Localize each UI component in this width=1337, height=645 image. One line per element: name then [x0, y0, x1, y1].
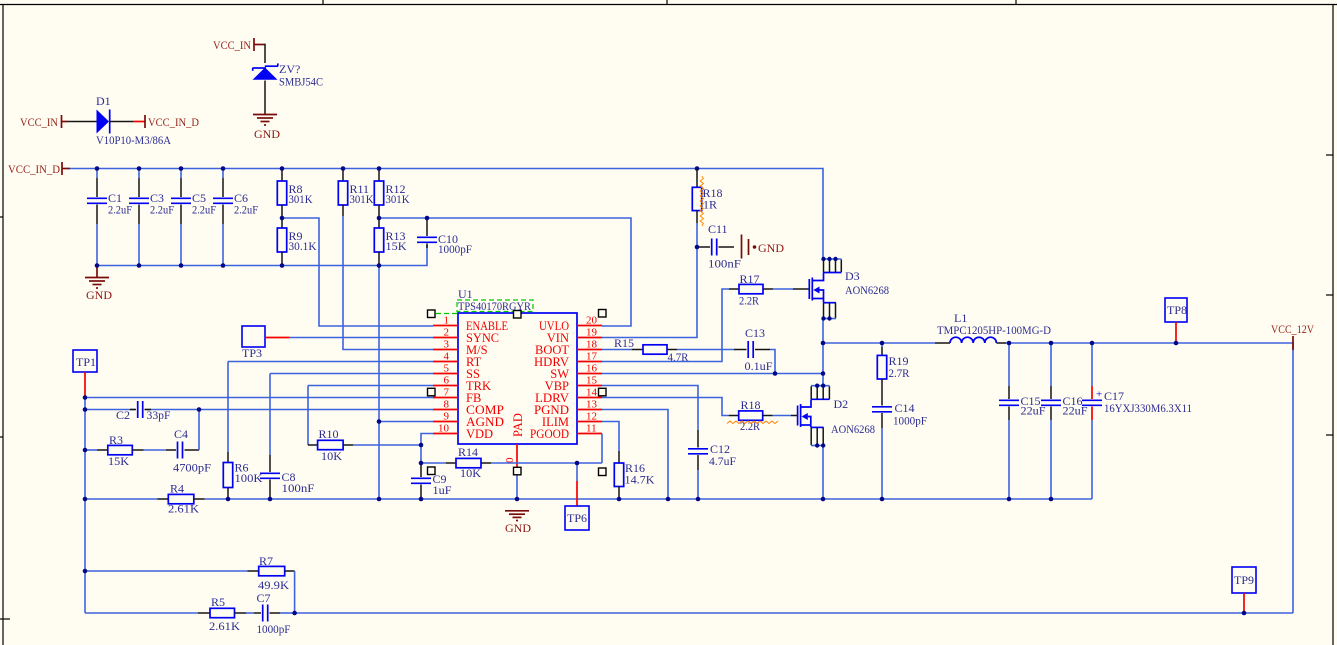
capacitor C1	[87, 169, 132, 266]
wire	[264, 81, 266, 114]
svg-text:D3: D3	[845, 269, 860, 283]
svg-text:D2: D2	[834, 397, 849, 411]
svg-text:49.9K: 49.9K	[258, 578, 289, 592]
svg-text:2: 2	[444, 327, 450, 339]
svg-text:4: 4	[444, 351, 450, 363]
junction dots right/bottom	[83, 245, 1247, 616]
testpoint TP8	[1165, 298, 1187, 343]
svg-text:TP3: TP3	[242, 346, 262, 360]
junction dots top area	[95, 166, 700, 268]
svg-text:2.2uF: 2.2uF	[108, 203, 132, 217]
pin 8 COMP	[433, 399, 504, 418]
wire AGND vertical	[378, 266, 380, 500]
svg-text:TP1: TP1	[76, 355, 96, 369]
wire	[110, 121, 133, 123]
svg-text:20: 20	[586, 315, 598, 327]
svg-text:+: +	[1096, 389, 1102, 401]
wire GND rail left	[85, 498, 158, 500]
svg-text:C11: C11	[708, 222, 728, 236]
pin 17 HDRV	[534, 351, 602, 370]
wire R7 right down	[294, 571, 296, 613]
wire D2 source to gnd rail	[822, 446, 824, 500]
svg-text:14: 14	[586, 387, 598, 399]
ERC squiggle R18 (1R)	[700, 176, 703, 226]
selection dashes U1	[436, 300, 533, 314]
pin 7 FB	[433, 387, 481, 406]
pin 11 PGOOD	[530, 423, 602, 442]
svg-text:GND: GND	[254, 127, 280, 141]
capacitor C14	[872, 399, 927, 499]
capacitor C17 (polarized)	[1082, 343, 1192, 499]
wire GND rail	[205, 498, 1092, 500]
wire TP3 to SYNC	[290, 337, 434, 339]
capacitor C3	[129, 169, 174, 266]
svg-text:2.7R: 2.7R	[889, 366, 910, 380]
wire R3-C4	[144, 449, 167, 451]
svg-text:4.7uF: 4.7uF	[709, 454, 736, 468]
capacitor C4	[166, 427, 211, 475]
svg-text:TP6: TP6	[567, 511, 587, 525]
svg-text:301K: 301K	[386, 192, 410, 206]
svg-text:PGOOD: PGOOD	[530, 427, 569, 441]
pin 20 UVLO	[539, 315, 602, 334]
svg-text:0.1uF: 0.1uF	[745, 359, 773, 373]
svg-text:2.2R: 2.2R	[739, 294, 759, 308]
svg-text:10K: 10K	[321, 449, 342, 463]
svg-text:12: 12	[586, 411, 597, 423]
pin 2 SYNC	[433, 327, 499, 346]
inductor L1	[935, 311, 1051, 343]
wire R8/R9 tap to ENABLE	[282, 218, 433, 326]
ERC squiggle R18 (2.2R)	[727, 421, 778, 424]
wire FB to pin7	[85, 397, 433, 399]
svg-text:1000pF: 1000pF	[438, 242, 472, 256]
resistor R19	[877, 343, 909, 399]
svg-text:2.2uF: 2.2uF	[192, 203, 216, 217]
svg-text:1R: 1R	[703, 198, 717, 212]
pin 13 PGND	[534, 399, 602, 418]
wire output rail	[1006, 343, 1293, 613]
resistor R7	[85, 554, 295, 592]
svg-text:100nF: 100nF	[708, 257, 741, 271]
ground (below C1)	[85, 266, 112, 303]
resistor R12	[374, 169, 409, 219]
resistor R3	[97, 433, 144, 468]
pin 3 M/S	[433, 339, 488, 358]
capacitor C12	[688, 430, 736, 499]
pin 4 RT	[433, 351, 482, 370]
wire	[264, 44, 266, 63]
resistor R10	[308, 386, 433, 464]
resistor R17	[729, 272, 793, 308]
svg-text:14.7K: 14.7K	[625, 473, 655, 487]
svg-text:0: 0	[504, 457, 516, 463]
transistor D3 AON6268	[793, 259, 889, 319]
pin 14 LDRV	[535, 387, 602, 406]
svg-text:2.61K: 2.61K	[209, 619, 240, 633]
wire SW row	[602, 373, 823, 375]
svg-text:15K: 15K	[108, 454, 129, 468]
svg-text:VDD: VDD	[466, 427, 493, 441]
wire VIN vertical	[602, 247, 697, 338]
testpoint TP1	[73, 350, 97, 398]
wire	[68, 121, 97, 123]
wire FB net vertical	[84, 398, 86, 614]
svg-text:15: 15	[586, 375, 598, 387]
port VCC_IN_D (right of D1)	[145, 115, 199, 129]
svg-text:1000pF: 1000pF	[257, 622, 291, 636]
resistor R18 (2.2R)	[729, 398, 791, 433]
resistor R13	[374, 218, 407, 266]
svg-text:R3: R3	[109, 433, 123, 447]
resistor R5	[198, 595, 246, 633]
svg-text:PAD: PAD	[511, 413, 525, 437]
pin 10 VDD	[433, 423, 493, 442]
svg-text:2.2uF: 2.2uF	[234, 203, 258, 217]
pin 19 VIN	[547, 327, 602, 346]
wire C4 up to COMP row	[198, 410, 200, 451]
svg-text:1uF: 1uF	[433, 483, 452, 497]
svg-text:19: 19	[586, 327, 598, 339]
wire top rail	[70, 169, 823, 260]
capacitor C13	[734, 326, 773, 373]
svg-text:2.61K: 2.61K	[168, 502, 199, 516]
testpoint TP9	[1232, 567, 1256, 613]
resistor R15	[602, 336, 734, 364]
svg-text:SMBJ54C: SMBJ54C	[279, 75, 323, 89]
pin 12 ILIM	[542, 411, 602, 430]
svg-text:2.2R: 2.2R	[740, 419, 760, 433]
svg-text:R7: R7	[259, 554, 273, 568]
wire VDD drop	[421, 434, 433, 464]
pin 16 SW	[550, 363, 602, 382]
svg-text:C2: C2	[116, 408, 130, 422]
wire cap gnd rail	[97, 245, 427, 266]
port VCC_IN (top)	[213, 38, 265, 52]
svg-text:301K: 301K	[289, 192, 313, 206]
svg-text:R17: R17	[740, 272, 760, 286]
resistor R14	[421, 445, 602, 480]
pin 0 PAD	[504, 413, 525, 499]
svg-text:VCC_IN_D: VCC_IN_D	[148, 115, 199, 129]
capacitor C7	[246, 591, 295, 636]
capacitor C8	[260, 374, 433, 500]
svg-text:VCC_IN: VCC_IN	[213, 38, 251, 52]
svg-text:C13: C13	[745, 326, 765, 340]
svg-text:TP9: TP9	[1234, 573, 1254, 587]
testpoint TP6	[565, 463, 589, 530]
capacitor C15	[999, 343, 1046, 499]
svg-text:10K: 10K	[460, 466, 481, 480]
wire R11 to M/S	[343, 216, 433, 350]
svg-text:301K: 301K	[350, 192, 374, 206]
resistor R4	[158, 482, 205, 516]
svg-text:3: 3	[444, 339, 450, 351]
wire COMP row	[85, 409, 135, 411]
wire PGOOD drop	[601, 434, 603, 464]
svg-text:GND: GND	[505, 521, 531, 535]
resistor R6	[223, 362, 433, 500]
resistor R9	[277, 218, 317, 266]
svg-text:8: 8	[444, 399, 450, 411]
capacitor C10	[417, 218, 472, 256]
ground (below PAD)	[505, 511, 531, 535]
TVS diode ZV? SMBJ54C	[253, 62, 324, 89]
wire FB tap to R3	[85, 449, 97, 451]
svg-text:6: 6	[444, 375, 450, 387]
svg-text:VCC_12V: VCC_12V	[1271, 322, 1314, 336]
svg-text:R4: R4	[170, 482, 184, 496]
svg-text:C7: C7	[257, 591, 271, 605]
junction dots mid area	[83, 395, 622, 501]
capacitor C9	[411, 463, 452, 499]
pin 5 SS	[433, 363, 480, 382]
ground (below ZV?)	[253, 113, 280, 141]
svg-text:V10P10-M3/86A: V10P10-M3/86A	[96, 133, 171, 147]
pin 18 BOOT	[535, 339, 602, 358]
svg-text:TP8: TP8	[1167, 303, 1187, 317]
wire PGND down	[602, 410, 668, 500]
svg-text:9: 9	[444, 411, 450, 423]
wire SW node vertical	[822, 319, 824, 386]
resistor R8	[277, 169, 312, 219]
pin 1 ENABLE	[433, 315, 508, 334]
capacitor C2	[116, 401, 171, 422]
testpoint TP3	[242, 326, 290, 360]
pin 15 VBP	[545, 375, 602, 394]
port VCC_IN_D	[8, 162, 70, 176]
transistor D2 AON6268	[791, 386, 875, 446]
svg-text:30.1K: 30.1K	[289, 239, 317, 253]
svg-text:AON6268: AON6268	[845, 283, 889, 297]
svg-text:100K: 100K	[235, 471, 263, 485]
resistor R11	[338, 169, 373, 217]
wire LDRV down to R18	[602, 398, 729, 416]
svg-text:TMPC1205HP-100MG-D: TMPC1205HP-100MG-D	[937, 323, 1051, 337]
svg-text:17: 17	[586, 351, 598, 363]
svg-text:GND: GND	[86, 288, 112, 302]
wire SW to L1	[823, 342, 935, 344]
ground (bar style at C11)	[742, 235, 785, 259]
resistor R16	[602, 422, 655, 500]
pin 9 AGND	[433, 411, 504, 430]
svg-text:16: 16	[586, 363, 598, 375]
svg-text:100nF: 100nF	[282, 481, 315, 495]
svg-text:10: 10	[438, 423, 450, 435]
capacitor C5	[171, 169, 216, 266]
svg-text:VCC_IN: VCC_IN	[20, 115, 58, 129]
svg-text:GND: GND	[758, 241, 784, 255]
svg-text:1: 1	[444, 315, 450, 327]
svg-text:13: 13	[586, 399, 598, 411]
svg-text:18: 18	[586, 339, 598, 351]
svg-text:R15: R15	[614, 336, 634, 350]
svg-text:C4: C4	[174, 427, 188, 441]
capacitor C6	[213, 169, 258, 266]
capacitor C16	[1041, 343, 1088, 499]
wire VBP to C12	[602, 386, 698, 431]
svg-text:R18: R18	[741, 398, 761, 412]
svg-text:11: 11	[586, 423, 597, 435]
svg-text:R5: R5	[211, 595, 225, 609]
pin 6 TRK	[433, 375, 491, 394]
resistor R18 (1R)	[692, 169, 722, 248]
capacitor C11	[697, 222, 741, 271]
svg-text:5: 5	[444, 363, 450, 375]
svg-text:16YXJ330M6.3X11: 16YXJ330M6.3X11	[1104, 401, 1192, 415]
svg-text:2.2uF: 2.2uF	[150, 203, 174, 217]
svg-text:7: 7	[444, 387, 450, 399]
wire C13 to SW row	[770, 350, 775, 374]
svg-text:4700pF: 4700pF	[173, 461, 211, 475]
svg-text:15K: 15K	[386, 239, 407, 253]
wire bottom net to VCC_12V	[295, 612, 1293, 614]
selection handles U1	[428, 310, 607, 476]
port VCC_IN (left)	[20, 115, 68, 129]
diode D1	[96, 94, 171, 147]
svg-text:1000pF: 1000pF	[893, 414, 927, 428]
svg-text:R10: R10	[319, 427, 339, 441]
svg-text:R14: R14	[458, 445, 478, 459]
port VCC_12V	[1271, 322, 1314, 350]
wire bottom net	[85, 612, 198, 614]
svg-text:33pF: 33pF	[147, 408, 171, 422]
op-amp U1 body	[458, 287, 577, 444]
svg-text:D1: D1	[96, 94, 111, 108]
wire R12/R13 tap to UVLO	[379, 218, 631, 326]
svg-text:VCC_IN_D: VCC_IN_D	[8, 162, 60, 176]
svg-text:AON6268: AON6268	[831, 422, 875, 436]
wire HDRV up to R17	[602, 289, 729, 362]
